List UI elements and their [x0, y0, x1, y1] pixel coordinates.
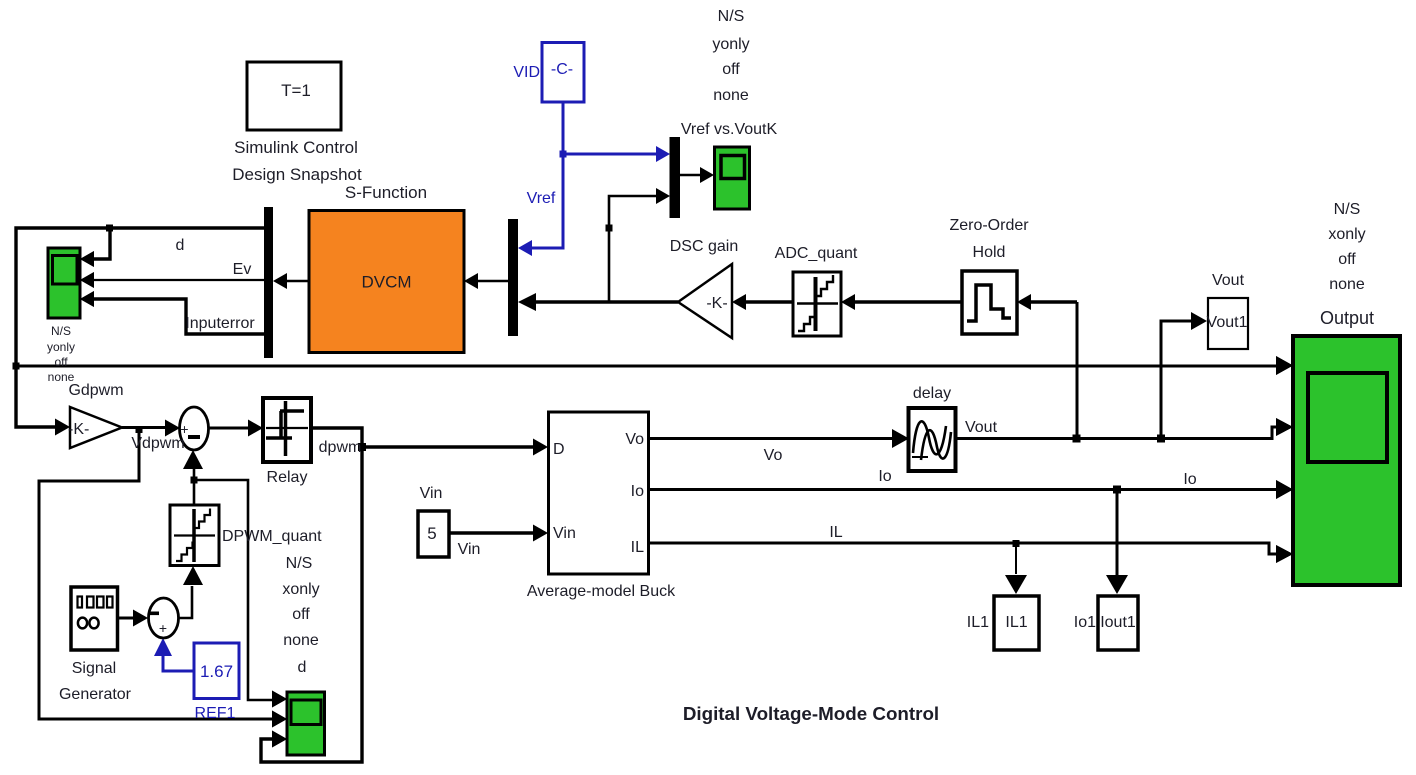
svg-text:Output: Output: [1320, 308, 1374, 328]
wire d long line to Output scope input1: [13, 356, 1294, 375]
wire blue REF1 to sum2: [154, 638, 194, 671]
svg-text:yonly: yonly: [47, 340, 75, 354]
label Vout: [965, 419, 998, 436]
wire sum2 to DPWM_quant: [178, 566, 203, 618]
wire d from demux output1 to left loop and Gdpwm input: [16, 225, 264, 436]
labels Vo Io IL on wires: [764, 447, 1197, 541]
svg-text:Average-model Buck: Average-model Buck: [527, 583, 676, 600]
wire dpwm from Relay to Buck D and down to d-scope: [261, 428, 548, 762]
wire ZOH feed from Vout junction: [1073, 302, 1081, 443]
label Vdpwm: [131, 435, 184, 452]
svg-text:Simulink Control: Simulink Control: [234, 138, 358, 157]
svg-text:Vdpwm: Vdpwm: [131, 435, 184, 452]
svg-text:Io: Io: [1183, 471, 1196, 488]
svg-text:N/S: N/S: [286, 555, 313, 572]
wire mux2 to scope Vref vs.VoutK: [680, 167, 714, 183]
svg-text:N/S: N/S: [1334, 201, 1361, 218]
block REF1 constant 1.67: [194, 643, 239, 722]
wire Inputerror from demux to scope1: [80, 291, 264, 334]
svg-text:N/S: N/S: [51, 324, 71, 338]
block DPWM_quant quantizer: [170, 505, 322, 566]
svg-text:REF1: REF1: [195, 705, 236, 722]
svg-text:Ev: Ev: [233, 261, 252, 278]
svg-text:Signal: Signal: [72, 660, 116, 677]
wire Gdpwm output to sum1 with Vdpwm branch down: [39, 420, 287, 728]
svg-text:Vout: Vout: [965, 419, 998, 436]
wire IL from Buck to Output scope input4: [648, 540, 1293, 563]
label Vref blue: [527, 190, 556, 207]
svg-text:DVCM: DVCM: [361, 273, 411, 292]
block delay transport delay: [909, 385, 956, 471]
wire blue from VID constant down and into mux: [518, 102, 670, 256]
block Zero-Order Hold: [949, 217, 1029, 334]
block ADC_quant quantizer: [775, 245, 858, 336]
svg-text:none: none: [1329, 276, 1365, 293]
svg-text:DPWM_quant: DPWM_quant: [222, 528, 322, 545]
svg-text:Digital Voltage-Mode Control: Digital Voltage-Mode Control: [683, 703, 939, 724]
svg-text:-C-: -C-: [551, 61, 573, 78]
wire ZOH to ADC_quant: [841, 294, 962, 310]
svg-text:Vo: Vo: [625, 431, 644, 448]
scope3 d scope: [287, 692, 325, 755]
svg-text:Io: Io: [631, 483, 644, 500]
block Relay: [263, 398, 311, 486]
labels N/S yonly off none above Vref scope: [712, 8, 749, 104]
wire branch to Vout1: [1161, 312, 1207, 439]
wire sum1 to Relay: [208, 420, 263, 437]
Output scope input arrows: [1276, 356, 1293, 563]
wire Io drop to Iout1: [1106, 490, 1128, 595]
scope1 input arrows: [80, 251, 94, 307]
svg-text:Vo: Vo: [764, 447, 783, 464]
wire DVCM output to demux: [273, 273, 309, 289]
wire Ev from demux to scope1: [80, 272, 264, 288]
scope Output: [1293, 201, 1400, 585]
svg-text:dpwm: dpwm: [319, 439, 362, 456]
svg-text:-K-: -K-: [68, 421, 89, 438]
block Iout1 goto: [1074, 596, 1138, 650]
svg-text:+: +: [159, 620, 167, 636]
gain Gdpwm: [68, 382, 124, 448]
wire ADC_quant to DSC gain: [732, 294, 793, 310]
scope Vref vs.VoutK: [681, 121, 778, 209]
sum1: [180, 407, 209, 450]
wire Vo from Buck to delay: [648, 429, 909, 448]
svg-text:Generator: Generator: [59, 686, 132, 703]
svg-text:Relay: Relay: [267, 469, 308, 486]
svg-text:Gdpwm: Gdpwm: [68, 382, 123, 399]
label dpwm: [319, 439, 362, 456]
labels d Ev Inputerror: [176, 237, 256, 332]
svg-text:none: none: [283, 632, 319, 649]
block Vin constant 5: [418, 485, 480, 558]
demux bar left of DVCM: [264, 207, 273, 358]
gain DSC gain: [670, 238, 738, 338]
block Vout1 goto: [1207, 272, 1248, 349]
svg-text:none: none: [713, 87, 749, 104]
svg-text:Vin: Vin: [458, 541, 481, 558]
svg-text:DSC gain: DSC gain: [670, 238, 738, 255]
svg-text:Vin: Vin: [420, 485, 443, 502]
svg-text:yonly: yonly: [712, 36, 749, 53]
svg-text:d: d: [298, 659, 307, 676]
svg-text:N/S: N/S: [718, 8, 745, 25]
wire Io from Buck to Output scope input3: [648, 480, 1293, 499]
svg-text:Vout1: Vout1: [1207, 314, 1248, 331]
block IL1 goto: [967, 596, 1039, 650]
scope3 input arrows: [272, 691, 287, 748]
wire branch VoutK up to Vref-scope mux: [606, 188, 671, 302]
svg-text:off: off: [722, 61, 740, 78]
mux bar for Vref scope: [670, 137, 681, 218]
svg-text:off: off: [1338, 251, 1356, 268]
svg-text:xonly: xonly: [1328, 226, 1365, 243]
block S-Function DVCM: [309, 183, 464, 353]
svg-text:IL: IL: [829, 524, 842, 541]
svg-text:delay: delay: [913, 385, 951, 402]
svg-text:T=1: T=1: [281, 81, 311, 100]
svg-text:Zero-Order: Zero-Order: [949, 217, 1029, 234]
wire Signal Generator to sum2: [117, 610, 148, 627]
svg-text:Inputerror: Inputerror: [185, 315, 255, 332]
labels N/S xonly off none d above d-scope: [282, 555, 319, 676]
svg-text:Design Snapshot: Design Snapshot: [232, 165, 362, 184]
svg-text:Io1: Io1: [1074, 614, 1096, 631]
svg-text:Io: Io: [878, 468, 891, 485]
wire VoutK from DSC gain to mux: [518, 293, 678, 311]
svg-text:VID: VID: [513, 64, 540, 81]
svg-text:5: 5: [427, 524, 436, 543]
title Digital Voltage-Mode Control: [683, 703, 939, 724]
wire Vin constant to Buck: [449, 525, 548, 542]
svg-text:-K-: -K-: [706, 295, 727, 312]
mux bar right of DVCM: [508, 219, 518, 336]
wire VoutK chain junction to ZOH: [1017, 294, 1077, 310]
svg-text:IL1: IL1: [1005, 614, 1027, 631]
wire DPWM_quant output up to sum1 and branch to d-scope: [183, 450, 287, 708]
svg-text:IL1: IL1: [967, 614, 989, 631]
svg-text:Vout: Vout: [1212, 272, 1245, 289]
svg-text:Hold: Hold: [973, 244, 1006, 261]
svg-text:Vin: Vin: [553, 525, 576, 542]
block VID constant -C-: [513, 43, 584, 103]
svg-text:xonly: xonly: [282, 581, 319, 598]
svg-text:S-Function: S-Function: [345, 183, 427, 202]
svg-text:D: D: [553, 441, 565, 458]
svg-text:off: off: [54, 355, 68, 369]
svg-text:IL: IL: [631, 539, 644, 556]
block Signal Generator: [59, 587, 132, 703]
svg-text:Vref: Vref: [527, 190, 556, 207]
svg-text:ADC_quant: ADC_quant: [775, 245, 858, 262]
svg-text:1.67: 1.67: [200, 662, 233, 681]
scope1 left flipped scope: [47, 248, 80, 384]
svg-text:d: d: [176, 237, 185, 254]
wire Vout from delay to Output scope input2: [955, 418, 1293, 443]
sum2: [148, 598, 179, 638]
block Average-model Buck: [527, 412, 676, 600]
svg-text:Iout1: Iout1: [1100, 614, 1136, 631]
wire IL drop to IL1: [1005, 543, 1027, 594]
block T=1 Simulink Control Design Snapshot: [232, 62, 362, 184]
svg-text:Vref vs.VoutK: Vref vs.VoutK: [681, 121, 778, 138]
wire mux to DVCM input: [464, 273, 508, 289]
svg-text:off: off: [292, 606, 310, 623]
